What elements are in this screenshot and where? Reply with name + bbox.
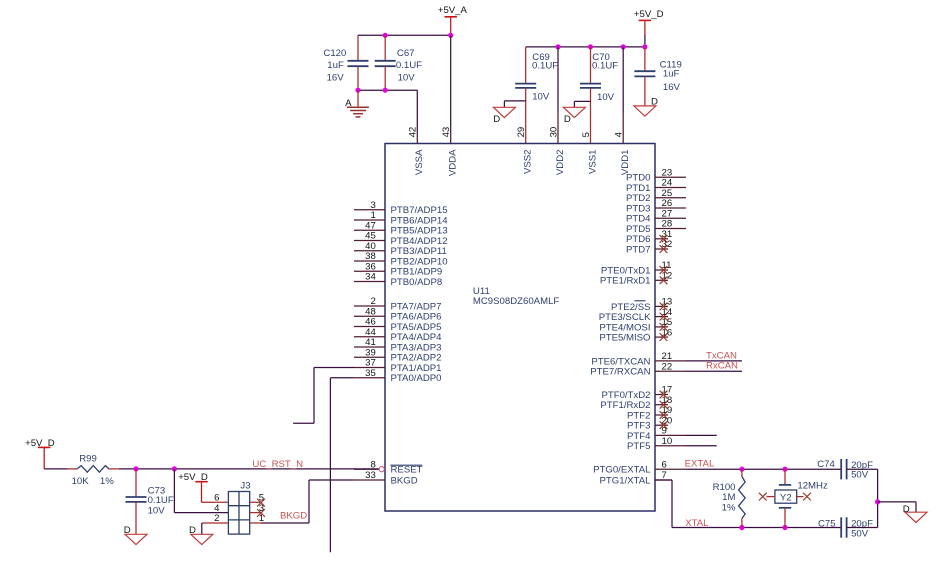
node oscillator ground junction: [875, 499, 880, 504]
pin 1 PTB6/ADP14: [354, 210, 448, 226]
svg-text:MC9S08DZ60AMLF: MC9S08DZ60AMLF: [473, 296, 560, 307]
svg-text:29: 29: [516, 127, 527, 138]
wire PTA0 stub net: [330, 378, 354, 553]
pin 17 PTF0/TxD2: [601, 385, 672, 401]
pin 29 VSS2 (top): [516, 127, 533, 174]
ground D (C73): [124, 525, 147, 545]
pin 25 PTD2: [626, 188, 686, 204]
svg-text:10V: 10V: [532, 91, 550, 102]
svg-text:VSSA: VSSA: [414, 149, 425, 175]
pin 33 BKGD: [354, 470, 418, 486]
svg-text:2: 2: [214, 513, 219, 524]
svg-text:1%: 1%: [100, 476, 114, 487]
capacitor C73: [126, 469, 174, 534]
pin 47 PTB5/ADP13: [354, 221, 448, 237]
pin 48 PTA6/ADP6: [354, 307, 442, 323]
node R99/J3 junction: [172, 466, 177, 471]
pin 11 PTE0/TxD1: [601, 260, 672, 276]
svg-text:BKGD: BKGD: [391, 475, 418, 486]
svg-text:+5V_A: +5V_A: [438, 5, 468, 16]
pin 12 PTE1/RxD1: [600, 271, 672, 287]
net label BKGD: [280, 511, 307, 522]
svg-text:PTB0/ADP8: PTB0/ADP8: [391, 277, 443, 288]
pin 42 VSSA (top): [408, 127, 425, 175]
svg-text:PTD7: PTD7: [626, 244, 651, 255]
svg-text:22: 22: [662, 361, 673, 372]
ground D (C69): [493, 101, 525, 125]
pin 46 PTA5/ADP5: [354, 317, 442, 333]
wire C74 to ground: [847, 469, 878, 502]
pin 22 PTE7/RXCAN: [590, 361, 742, 377]
ground D (C70): [563, 101, 590, 124]
pin 28 PTD5: [626, 219, 686, 235]
svg-text:C74: C74: [817, 459, 835, 470]
node R99/C73 junction: [133, 466, 138, 471]
pin 36 PTB1/ADP9: [354, 262, 442, 278]
svg-text:16: 16: [662, 327, 673, 338]
pin 5 VSS1 (top): [581, 132, 598, 174]
net label UC_RST_N: [252, 459, 303, 470]
svg-text:50V: 50V: [851, 528, 869, 539]
svg-text:10V: 10V: [398, 73, 416, 84]
pin 39 PTA2/ADP2: [354, 348, 442, 364]
svg-text:C120: C120: [323, 48, 346, 59]
wire VDD2 drop: [557, 47, 559, 144]
svg-text:16V: 16V: [327, 73, 345, 84]
svg-text:33: 33: [365, 470, 376, 481]
svg-text:VDD2: VDD2: [555, 150, 566, 176]
power +5V_D (top): [634, 9, 664, 47]
svg-text:PTG0/EXTAL: PTG0/EXTAL: [593, 465, 651, 476]
svg-text:12MHz: 12MHz: [797, 481, 828, 492]
pin 20 PTF3: [627, 415, 672, 431]
capacitor C75: [818, 517, 873, 539]
svg-text:BKGD: BKGD: [280, 511, 307, 522]
pin 41 PTA3/ADP3: [354, 337, 442, 353]
value 12MHz: [797, 481, 828, 492]
ground D (J3): [189, 525, 213, 545]
pin 43 VDDA (top): [441, 127, 458, 176]
svg-text:1M: 1M: [722, 492, 735, 503]
ground D (C119): [634, 96, 658, 116]
pin 26 PTD3: [626, 198, 686, 214]
svg-text:PTA0/ADP0: PTA0/ADP0: [391, 373, 442, 384]
pin 13 PTE2/SS: [611, 297, 672, 313]
svg-text:12: 12: [662, 271, 673, 282]
svg-text:34: 34: [365, 272, 376, 283]
capacitor C67: [375, 35, 422, 90]
capacitor C119: [634, 47, 681, 106]
svg-text:Y2: Y2: [780, 492, 792, 503]
svg-text:5: 5: [581, 132, 592, 137]
ground A (analog earth): [345, 90, 369, 117]
wire UC_RST_N left segment: [44, 468, 67, 470]
svg-text:0.1UF: 0.1UF: [148, 495, 174, 506]
svg-text:A: A: [345, 98, 352, 109]
svg-text:RESET: RESET: [391, 465, 423, 476]
svg-text:10K: 10K: [72, 476, 90, 487]
node +5V_A bus junctions: [383, 33, 454, 38]
net label XTAL: [685, 518, 709, 529]
svg-text:+5V_D: +5V_D: [634, 9, 664, 20]
svg-text:35: 35: [365, 368, 376, 379]
pin 4 VDD1 (top): [614, 131, 631, 175]
pin 8 RESET (with bubble): [354, 459, 423, 475]
svg-text:D: D: [493, 114, 500, 125]
svg-text:10V: 10V: [597, 92, 615, 103]
wire EXTAL net: [686, 468, 841, 470]
svg-text:D: D: [564, 114, 571, 125]
pin 7 PTG1/XTAL: [599, 470, 672, 486]
wire VDD1 drop: [622, 47, 624, 144]
svg-text:D: D: [124, 525, 131, 536]
pin 27 PTD4: [626, 209, 686, 225]
svg-text:10: 10: [662, 436, 673, 447]
resistor R100: [713, 469, 746, 527]
net label RxCAN: [706, 361, 738, 372]
svg-text:42: 42: [408, 127, 419, 138]
wire analog ground bus: [358, 89, 417, 91]
pin 15 PTE4/MOSI: [599, 317, 672, 333]
pin 14 PTE3/SCLK: [599, 307, 673, 323]
pin 1 Y2 (nc): [759, 493, 775, 501]
svg-text:0.1UF: 0.1UF: [532, 61, 558, 72]
pin 16 PTE5/MISO: [599, 327, 672, 343]
pin 4 J3: [214, 503, 220, 514]
connector J3 body: [228, 480, 250, 534]
capacitor C69: [515, 47, 558, 144]
svg-text:VDDA: VDDA: [448, 149, 459, 176]
svg-text:C67: C67: [397, 48, 415, 59]
pin 35 PTA0/ADP0: [354, 368, 442, 384]
svg-text:PTG1/XTAL: PTG1/XTAL: [599, 475, 651, 486]
svg-text:3: 3: [259, 503, 264, 514]
svg-text:RxCAN: RxCAN: [706, 361, 738, 372]
svg-text:VDD1: VDD1: [620, 150, 631, 176]
pin 2 Y2 (nc): [797, 493, 811, 501]
pin 3 PTB7/ADP15: [354, 200, 448, 216]
svg-text:J3: J3: [240, 480, 250, 491]
pin 18 PTF1/RxD2: [600, 395, 672, 411]
pin 37 PTA1/ADP1: [354, 358, 442, 374]
svg-text:PTE7/RXCAN: PTE7/RXCAN: [590, 367, 650, 378]
svg-text:1uF: 1uF: [663, 68, 680, 79]
svg-text:VSS1: VSS1: [587, 150, 598, 175]
svg-text:0.1UF: 0.1UF: [592, 61, 618, 72]
pin 30 VDD2 (top): [548, 127, 565, 175]
svg-text:32: 32: [662, 239, 673, 250]
svg-text:1%: 1%: [722, 502, 736, 513]
pin 23 PTD0: [626, 168, 686, 184]
pin 34 PTB0/ADP8: [354, 272, 442, 288]
svg-text:4: 4: [614, 131, 625, 137]
node EXTAL junctions: [739, 467, 787, 472]
pin 5 J3 (nc): [250, 493, 265, 507]
pin 44 PTA4/ADP4: [354, 327, 442, 343]
wire PTA1 stub net: [293, 368, 354, 424]
svg-text:PTF5: PTF5: [627, 441, 650, 452]
svg-text:C75: C75: [818, 519, 836, 530]
pin 40 PTB3/ADP11: [354, 241, 447, 257]
svg-text:1uF: 1uF: [327, 60, 344, 71]
svg-text:EXTAL: EXTAL: [685, 458, 715, 469]
wire +5V_A bus: [358, 34, 451, 36]
pin 3 J3 (nc): [250, 503, 265, 517]
pin 45 PTB4/ADP12: [354, 231, 448, 247]
ic U11 body: [385, 144, 655, 512]
svg-text:TxCAN: TxCAN: [706, 350, 737, 361]
net label TxCAN: [706, 350, 737, 361]
svg-text:50V: 50V: [851, 469, 869, 480]
svg-text:D: D: [189, 525, 196, 536]
net label EXTAL: [685, 458, 715, 469]
power +5V_D (J3): [178, 472, 208, 503]
pin 2 J3: [202, 513, 229, 534]
svg-text:R99: R99: [79, 454, 97, 465]
pin 1 J3: [250, 513, 264, 524]
svg-text:PTE1/RxD1: PTE1/RxD1: [600, 276, 651, 287]
pin 9 PTF4: [627, 426, 717, 442]
svg-text:30: 30: [548, 127, 559, 138]
pin 31 PTD6: [626, 229, 672, 245]
svg-text:43: 43: [441, 127, 452, 138]
pin 2 PTA7/ADP7: [354, 296, 442, 312]
power +5V_D (reset pullup): [25, 438, 55, 469]
wire C75 to ground: [847, 502, 878, 528]
node analog ground junctions: [355, 88, 387, 93]
crystal Y2: [775, 469, 797, 527]
pin 19 PTF2: [627, 405, 672, 421]
pin 21 PTE6/TXCAN: [591, 351, 742, 367]
svg-text:4: 4: [214, 503, 220, 514]
pin 38 PTB2/ADP10: [354, 251, 448, 267]
pin 6 PTG0/EXTAL: [593, 459, 686, 475]
svg-text:VSS2: VSS2: [523, 150, 534, 175]
resistor R99: [68, 454, 120, 488]
pin 6 J3: [202, 493, 229, 504]
svg-text:UC_RST_N: UC_RST_N: [252, 459, 303, 470]
pin 32 PTD7: [626, 239, 672, 255]
node XTAL junctions: [739, 525, 787, 530]
capacitor C120: [323, 35, 368, 90]
svg-text:16V: 16V: [663, 82, 681, 93]
wire BKGD net: [261, 480, 354, 523]
capacitor C74: [817, 459, 873, 481]
svg-text:6: 6: [662, 459, 667, 470]
svg-text:PTE5/MISO: PTE5/MISO: [599, 333, 650, 344]
wire J3 pin4 feed: [174, 469, 228, 513]
wire VSSA drop: [416, 90, 418, 143]
node +5V_D bus junctions: [555, 44, 647, 49]
ground D (oscillator): [903, 504, 927, 523]
wire UC_RST_N to RESET pin: [119, 468, 379, 470]
wire ground stub: [878, 502, 916, 512]
capacitor C70: [580, 47, 618, 144]
wire VDDA drop: [450, 35, 452, 143]
svg-text:XTAL: XTAL: [685, 518, 709, 529]
svg-text:D: D: [903, 504, 910, 515]
wire +5V_D bus: [526, 46, 645, 48]
wire XTAL net: [655, 480, 841, 528]
svg-text:10V: 10V: [148, 506, 166, 517]
pin 10 PTF5: [627, 436, 717, 452]
power +5V_A: [438, 5, 468, 36]
pin 24 PTD1: [626, 178, 686, 194]
svg-text:0.1UF: 0.1UF: [396, 60, 422, 71]
svg-text:D: D: [651, 96, 658, 107]
